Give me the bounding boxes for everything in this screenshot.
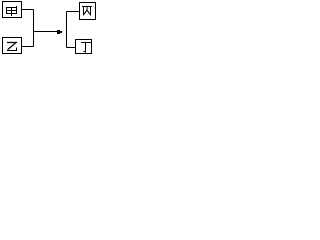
glyph 丙 bbox=[82, 7, 92, 16]
wire 甲 to junction bbox=[22, 9, 34, 11]
wire left vertical bus bbox=[33, 10, 35, 47]
box 丙 bbox=[80, 3, 96, 20]
box 丁 bbox=[76, 40, 92, 54]
wire arrow shaft bbox=[34, 31, 59, 33]
wire right vertical bus bbox=[66, 12, 68, 48]
box 乙 bbox=[3, 38, 22, 54]
glyph 乙 bbox=[7, 43, 16, 51]
wire to 丙 bbox=[67, 11, 80, 13]
glyph 甲 bbox=[6, 6, 17, 16]
wire to 丁 bbox=[67, 47, 76, 49]
box 甲 bbox=[3, 2, 22, 18]
glyph 丁 bbox=[81, 43, 91, 53]
wire 乙 to junction bbox=[22, 46, 34, 48]
arrowhead bbox=[57, 30, 62, 34]
